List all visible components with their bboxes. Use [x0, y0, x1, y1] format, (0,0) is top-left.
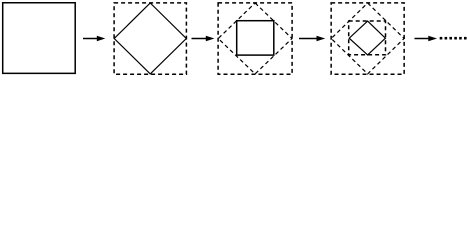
- arrow 3: [299, 36, 325, 42]
- dashed square 2 (stage 2 outer): [114, 3, 186, 74]
- dashed square 4 (stage 4 outer): [331, 3, 404, 74]
- solid inner diamond 4 (stage 4 innermost): [349, 21, 385, 55]
- dashed diamond 4 (stage 4 second level): [331, 3, 404, 74]
- arrow 2: [192, 36, 215, 42]
- dashed square 3 (stage 3 outer): [218, 3, 292, 74]
- dashed diamond 3 (stage 3 middle): [218, 3, 292, 74]
- solid inner square 3 (stage 3 innermost): [237, 21, 274, 55]
- solid diamond 2 (inscribed rotated square, stage 2): [114, 3, 186, 74]
- arrow 4: [415, 36, 438, 42]
- arrow 1: [83, 36, 105, 42]
- dashed inner square 4 (stage 4 third level): [349, 21, 386, 55]
- square 1 (solid outer square, stage 1): [3, 3, 76, 74]
- ellipsis dots (continuation): [440, 37, 467, 40]
